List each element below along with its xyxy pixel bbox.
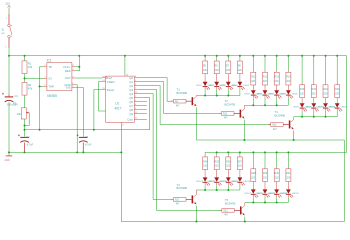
resistor R18 xyxy=(301,83,303,85)
svg-text:2: 2 xyxy=(5,46,7,48)
svg-text:220: 220 xyxy=(251,177,256,180)
wire feed R14 xyxy=(287,56,289,71)
wire R10 to T2 base xyxy=(234,112,240,114)
svg-text:LED20: LED20 xyxy=(279,193,286,195)
IC1 pin CV xyxy=(44,77,47,79)
wire RES jog xyxy=(76,67,79,71)
wire reset net horizontal xyxy=(25,129,150,131)
svg-text:220: 220 xyxy=(275,80,280,83)
U1 pin Cout xyxy=(134,118,147,120)
svg-text:4k7: 4k7 xyxy=(176,106,180,108)
svg-text:LED14: LED14 xyxy=(208,181,215,183)
U1 pin Q9 xyxy=(134,113,147,115)
junction 4017 gnd xyxy=(120,151,122,153)
svg-text:M1: M1 xyxy=(2,33,6,35)
svg-text:R1: R1 xyxy=(28,62,32,66)
wire feed R30 xyxy=(276,152,278,167)
resistor R4 xyxy=(171,100,174,102)
svg-text:LED16: LED16 xyxy=(244,181,251,183)
junction rail col 205.1 xyxy=(204,55,206,57)
junction g3 bus 0 xyxy=(301,116,303,118)
svg-text:220: 220 xyxy=(300,93,305,96)
wire rail to VDD xyxy=(124,56,126,75)
resistor R5 xyxy=(204,59,206,61)
wire feed R8 xyxy=(239,56,241,59)
wire LED6 to bus xyxy=(264,95,266,98)
svg-text:LED1: LED1 xyxy=(196,85,202,87)
resistor R13 xyxy=(276,71,278,73)
resistor R12 xyxy=(264,71,266,73)
wire feed R6 xyxy=(216,56,218,59)
svg-text:Cout: Cout xyxy=(127,118,133,122)
U1 pin Q3 xyxy=(134,89,138,91)
wire R31 to LED20 xyxy=(287,182,289,190)
svg-text:LED12: LED12 xyxy=(341,107,348,109)
svg-text:220: 220 xyxy=(275,177,280,180)
resistor R10 xyxy=(219,112,222,114)
junction lower rail col 288.4 xyxy=(287,151,289,153)
svg-text:R23: R23 xyxy=(223,211,228,213)
junction C3 gnd xyxy=(82,151,84,153)
junction T3 emitter joins xyxy=(293,139,295,141)
svg-text:NE555: NE555 xyxy=(47,94,57,98)
capacitor C1 xyxy=(8,94,10,96)
svg-text:IC1: IC1 xyxy=(47,59,52,63)
resistor R24 xyxy=(204,155,206,157)
wire LED4 to bus xyxy=(239,87,241,90)
LED LED17 xyxy=(251,189,256,193)
junction rail col 288.4 xyxy=(287,55,289,57)
svg-text:TR: TR xyxy=(48,65,52,69)
svg-text:BC546B: BC546B xyxy=(177,91,188,95)
wire LED8 to bus xyxy=(287,95,289,98)
wire R19 to LED10 xyxy=(313,98,315,104)
U1 pin Reset xyxy=(102,89,106,91)
wire +V down right edge xyxy=(346,56,348,153)
node group3 collector bus xyxy=(294,116,338,118)
LED LED4 xyxy=(238,82,243,86)
svg-text:LED15: LED15 xyxy=(219,181,226,183)
LED LED11 xyxy=(323,103,328,107)
svg-text:R18: R18 xyxy=(300,88,305,91)
wire R1 to R2 xyxy=(24,74,26,83)
wire DIS down xyxy=(76,88,83,135)
wire R14 to LED8 xyxy=(287,85,289,90)
junction T5 emitter xyxy=(244,221,246,223)
junction g3 bus 1 xyxy=(313,116,315,118)
svg-text:R24: R24 xyxy=(203,160,208,163)
wire LED3 to bus xyxy=(227,87,229,90)
svg-text:LED2: LED2 xyxy=(208,85,214,87)
svg-text:CKEN: CKEN xyxy=(107,80,115,84)
junction rail left corner xyxy=(8,55,10,57)
svg-text:4.7uF: 4.7uF xyxy=(27,142,34,146)
wire R11 to LED5 xyxy=(252,85,254,90)
svg-text:220: 220 xyxy=(263,177,268,180)
junction rail col 239.9 xyxy=(239,55,241,57)
LED LED2 xyxy=(214,82,219,86)
wire LED10 to bus xyxy=(313,108,315,111)
junction R1/R2 junction xyxy=(24,77,26,79)
wire bottom gnd bus xyxy=(121,221,344,223)
wire LED12 to bus xyxy=(336,108,338,111)
LED LED10 xyxy=(311,103,316,107)
svg-text:4k7: 4k7 xyxy=(224,215,228,217)
wire LED7 to bus xyxy=(276,95,278,98)
junction rail col 337.2 xyxy=(336,55,338,57)
wire feed R19 xyxy=(313,56,315,83)
wire Q0 to T1 base xyxy=(138,78,173,102)
svg-text:P: P xyxy=(11,25,13,27)
svg-text:4017: 4017 xyxy=(114,106,121,110)
wire Q5 to reset net xyxy=(138,98,150,130)
wire OUT to CLK xyxy=(76,77,102,79)
svg-text:LED20: LED20 xyxy=(292,193,299,195)
svg-text:12V: 12V xyxy=(5,2,10,6)
junction rail x=79.3 xyxy=(78,55,80,57)
IC1 pin THR xyxy=(44,85,47,87)
wire feed R21 xyxy=(336,56,338,83)
wire feed R27 xyxy=(239,152,241,155)
svg-text:LED4: LED4 xyxy=(244,85,250,87)
node group4 collector bus xyxy=(196,189,240,191)
svg-text:THR: THR xyxy=(48,85,54,89)
wire VSS down to bottom bus xyxy=(120,124,122,221)
svg-text:RES: RES xyxy=(65,69,71,73)
LED LED6 xyxy=(263,90,268,94)
LED LED12 xyxy=(335,103,340,107)
wire LED5 to bus xyxy=(252,95,254,98)
capacitor C2 xyxy=(20,137,29,138)
wire R4 to T1 base xyxy=(186,100,192,102)
junction rail col 313.8 xyxy=(313,55,315,57)
LED LED16 xyxy=(238,177,243,181)
node group2 collector bus xyxy=(244,104,288,106)
svg-text:LED11: LED11 xyxy=(317,107,324,109)
svg-text:R2: R2 xyxy=(28,83,32,87)
resistor R8 xyxy=(239,59,241,61)
transistor T4 xyxy=(192,195,194,203)
svg-text:4k7: 4k7 xyxy=(273,129,277,131)
LED LED5 xyxy=(251,90,256,94)
wire R5 to LED1 xyxy=(204,74,206,82)
wire rail to VCC xyxy=(78,56,80,67)
wire emitter bus xyxy=(196,139,344,141)
svg-text:LED9: LED9 xyxy=(293,107,299,109)
svg-text:220: 220 xyxy=(238,69,243,72)
wire feed R24 xyxy=(204,152,206,155)
svg-text:S: S xyxy=(11,36,13,38)
wire feed R20 xyxy=(325,56,327,83)
wire R29 to LED18 xyxy=(264,182,266,190)
svg-text:220: 220 xyxy=(286,177,291,180)
wire LED15 to bus xyxy=(227,182,229,185)
svg-text:220: 220 xyxy=(323,93,328,96)
wire supply to switch xyxy=(8,7,10,14)
resistor R25 xyxy=(216,155,218,157)
U1 pin Q1 xyxy=(134,81,138,83)
wire switch to rail xyxy=(8,48,10,56)
wire R12 to LED6 xyxy=(264,85,266,90)
svg-text:4.7uF: 4.7uF xyxy=(85,143,92,147)
wire LED19 to bus xyxy=(276,194,278,197)
wire LED13 to bus xyxy=(204,182,206,185)
capacitor C3 xyxy=(82,135,84,137)
wire GND bus xyxy=(9,151,121,153)
junction rail col 276.7 xyxy=(276,55,278,57)
junction rail col 302.1 xyxy=(301,55,303,57)
svg-text:R10: R10 xyxy=(223,114,228,116)
svg-text:220: 220 xyxy=(335,93,340,96)
junction lower rail col 239.9 xyxy=(239,151,241,153)
svg-text:R25: R25 xyxy=(215,160,220,163)
svg-text:R26: R26 xyxy=(226,160,231,163)
LED LED14 xyxy=(214,177,219,181)
transistor T5 xyxy=(240,206,242,214)
svg-text:220: 220 xyxy=(286,80,291,83)
svg-text:R19: R19 xyxy=(312,88,317,91)
LED LED3 xyxy=(226,82,231,86)
junction 555 gnd xyxy=(76,151,78,153)
svg-text:C2: C2 xyxy=(26,135,30,139)
wire Q1 to T2 base xyxy=(138,82,222,114)
wire rail to C1 xyxy=(8,56,10,94)
svg-text:R30: R30 xyxy=(275,172,280,175)
wire emitter bus down right edge xyxy=(343,140,345,222)
junction lower rail col 216.7 xyxy=(216,151,218,153)
wire VCC jog xyxy=(76,66,79,68)
wire R28 to LED17 xyxy=(252,182,254,190)
LED LED1 xyxy=(203,82,208,86)
resistor R27 xyxy=(239,155,241,157)
resistor R21 xyxy=(336,83,338,85)
U1 pin CLK xyxy=(102,77,106,79)
junction g4 bus 2 xyxy=(227,189,229,191)
wire feed R5 xyxy=(204,56,206,59)
junction tie joins reset net xyxy=(39,129,41,131)
U1 pin Q6 xyxy=(134,101,147,103)
C3 pin to gnd bus xyxy=(82,143,84,153)
svg-text:R11: R11 xyxy=(251,76,256,79)
svg-text:R21: R21 xyxy=(335,88,340,91)
junction g3 bus 2 xyxy=(325,116,327,118)
wire 555 GND down xyxy=(76,85,77,153)
IC1 pin RES xyxy=(72,70,76,72)
junction g1 bus 1 xyxy=(216,95,218,97)
switch S1 pin top xyxy=(8,14,10,24)
wire CKEN loop xyxy=(99,82,106,111)
wire TR-THR tie down xyxy=(39,67,41,130)
wire R16 to T3 base xyxy=(283,124,289,126)
junction T2 emitter joins xyxy=(243,139,245,141)
transistor T2 xyxy=(240,110,242,118)
wire feed R18 xyxy=(301,56,303,83)
U1 pin Q7 xyxy=(134,105,147,107)
wire LED20 to bus xyxy=(287,194,289,197)
wire T2 emitter down xyxy=(243,120,245,140)
junction lower rail col 265.0 xyxy=(264,151,266,153)
svg-text:220: 220 xyxy=(238,165,243,168)
wire R23 to T5 base xyxy=(234,209,240,211)
svg-text:Reset: Reset xyxy=(107,88,115,92)
svg-text:GND: GND xyxy=(5,160,10,162)
resistor R23 xyxy=(219,209,222,211)
svg-text:R14: R14 xyxy=(286,76,291,79)
svg-text:R17: R17 xyxy=(175,200,180,202)
svg-text:LED4: LED4 xyxy=(231,85,237,87)
junction T4 emitter xyxy=(195,221,197,223)
wire feed R31 xyxy=(287,152,289,167)
wire LED17 to bus xyxy=(252,194,254,197)
wire THR link xyxy=(40,85,44,87)
svg-text:R12: R12 xyxy=(263,76,268,79)
IC1 pin DIS xyxy=(72,87,76,89)
wire wiper tap xyxy=(25,113,30,126)
wire R7 to LED3 xyxy=(227,74,229,82)
junction reset joins xyxy=(93,129,95,131)
wire T1 emitter down xyxy=(195,107,197,140)
svg-text:R28: R28 xyxy=(251,172,256,175)
LED LED20 xyxy=(286,189,291,193)
junction rail x=124.9 xyxy=(124,55,126,57)
wire R13 to LED7 xyxy=(276,85,278,90)
resistor R6 xyxy=(216,59,218,61)
resistor R31 xyxy=(287,167,289,169)
LED LED19 xyxy=(274,189,279,193)
op-amp U: IC1 NE555 box xyxy=(47,62,72,90)
svg-text:LED5: LED5 xyxy=(244,94,250,96)
resistor R26 xyxy=(227,155,229,157)
wire R30 to LED19 xyxy=(276,182,278,190)
wire feed R13 xyxy=(276,56,278,71)
wire T4 emitter down xyxy=(195,206,197,222)
svg-text:OUT: OUT xyxy=(65,76,71,80)
resistor R14 xyxy=(287,71,289,73)
svg-text:8: 8 xyxy=(122,124,123,126)
svg-text:10k: 10k xyxy=(17,112,22,116)
svg-text:47k: 47k xyxy=(28,87,33,91)
wire R17 to T4 base xyxy=(186,198,192,200)
junction rail col 325.5 xyxy=(325,55,327,57)
transistor T1 xyxy=(192,97,194,105)
svg-text:220: 220 xyxy=(263,80,268,83)
node group1 collector bus xyxy=(196,95,240,97)
svg-text:LED12: LED12 xyxy=(328,107,335,109)
wire R24 to LED13 xyxy=(204,170,206,178)
svg-text:BC546B: BC546B xyxy=(177,186,188,190)
junction g4 bus 1 xyxy=(216,189,218,191)
switch S1 pin bottom xyxy=(8,38,10,48)
svg-text:LED8: LED8 xyxy=(279,94,285,96)
wire Q4 to T4 base xyxy=(138,94,174,200)
wire Q2 to T3 base xyxy=(138,86,271,125)
svg-text:BC547B: BC547B xyxy=(225,201,236,205)
junction VCC/RES xyxy=(78,66,80,68)
resistor R7 xyxy=(227,59,229,61)
svg-text:S1: S1 xyxy=(2,30,6,32)
wire R27 to LED16 xyxy=(239,170,241,178)
junction g5 bus 0 xyxy=(252,202,254,204)
wire rail to R1 xyxy=(24,56,26,61)
U1 pin VSS xyxy=(120,122,122,124)
wire feed R28 xyxy=(252,152,254,167)
svg-text:LED16: LED16 xyxy=(231,181,238,183)
wire divider to CV xyxy=(25,77,44,79)
svg-text:10k: 10k xyxy=(28,65,33,69)
wire feed R7 xyxy=(227,56,229,59)
C2 pin to gnd bus xyxy=(24,143,26,153)
svg-text:CV: CV xyxy=(48,77,52,81)
wire feed R12 xyxy=(264,56,266,71)
svg-text:LED10: LED10 xyxy=(305,107,312,109)
junction rail col 228.3 xyxy=(227,55,229,57)
svg-text:BC546B: BC546B xyxy=(275,114,286,118)
wire LED1 to bus xyxy=(204,87,206,90)
junction lower rail col 276.7 xyxy=(276,151,278,153)
node group5 collector bus xyxy=(245,202,289,204)
junction wiper junction xyxy=(24,125,26,127)
wire R20 to LED11 xyxy=(325,98,327,104)
svg-text:LED6: LED6 xyxy=(256,94,262,96)
wire R8 to LED4 xyxy=(239,74,241,82)
junction gnd corner xyxy=(8,151,10,153)
IC1 pin GND xyxy=(72,84,76,86)
LED LED18 xyxy=(263,189,268,193)
svg-text:LED3: LED3 xyxy=(219,85,225,87)
wire Reset down xyxy=(94,90,102,130)
resistor R2 xyxy=(22,82,27,95)
svg-text:R29: R29 xyxy=(263,172,268,175)
resistor R16 xyxy=(268,123,271,125)
U1 CLK marker xyxy=(106,76,108,79)
wire R25 to LED14 xyxy=(216,170,218,178)
U1 pin Q8 xyxy=(134,109,147,111)
trimmer R3 xyxy=(21,108,26,119)
svg-text:LED19: LED19 xyxy=(268,193,275,195)
svg-text:220: 220 xyxy=(312,93,317,96)
svg-text:Q9: Q9 xyxy=(129,112,133,116)
svg-text:1: 1 xyxy=(6,18,8,20)
IC1 pin VCC+ xyxy=(72,66,76,68)
IC1 pin OUT xyxy=(72,77,76,79)
svg-text:C3: C3 xyxy=(85,135,89,139)
U1 pin Q5 xyxy=(134,97,138,99)
svg-text:U1: U1 xyxy=(115,102,119,106)
wire LED16 to bus xyxy=(239,182,241,185)
svg-text:220: 220 xyxy=(226,165,231,168)
U1 pin Q0 xyxy=(134,77,138,79)
wire +V lower rail xyxy=(205,151,347,153)
IC1 pin TR xyxy=(44,66,47,68)
resistor R17 xyxy=(171,198,174,200)
wire LED18 to bus xyxy=(264,194,266,197)
wire LED14 to bus xyxy=(216,182,218,185)
resistor R30 xyxy=(276,167,278,169)
wire feed R29 xyxy=(264,152,266,167)
svg-text:220: 220 xyxy=(251,80,256,83)
junction C2 gnd xyxy=(24,151,26,153)
LED LED13 xyxy=(203,177,208,181)
svg-text:R6: R6 xyxy=(215,64,219,67)
svg-text:R31: R31 xyxy=(286,172,291,175)
wire T3 emitter down xyxy=(293,131,295,140)
svg-text:4k7: 4k7 xyxy=(176,204,180,206)
resistor R19 xyxy=(313,83,315,85)
ground GND xyxy=(8,152,10,155)
wire Q3 to T5 base xyxy=(138,90,222,211)
resistor R20 xyxy=(325,83,327,85)
junction g1 bus 0 xyxy=(204,95,206,97)
